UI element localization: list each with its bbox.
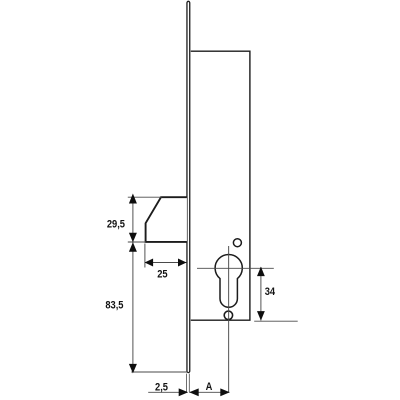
extension line below latch left edge (for 25) (144, 244, 146, 268)
lock body (case rectangle) (191, 51, 250, 320)
euro cylinder profile (215, 254, 242, 307)
dimension line 25 (145, 262, 187, 264)
arrow down (34 bottom) (257, 311, 265, 321)
svg-text:A: A (206, 382, 213, 394)
label 25 (157, 269, 168, 281)
arrow right (2,5 at faceplate left face) (179, 388, 189, 396)
svg-text:25: 25 (157, 269, 168, 281)
arrow up (34 top) (257, 267, 265, 277)
latch bolt (chamfered deadbolt, side view) (146, 197, 187, 242)
screw hole (lower) (224, 311, 232, 319)
extension line below faceplate left face (for 2,5) (186, 374, 188, 393)
extension line at faceplate bottom (131, 371, 187, 373)
arrow down (29,5 bottom) (129, 233, 137, 243)
arrow right (25) (178, 259, 187, 267)
svg-text:2,5: 2,5 (155, 382, 168, 394)
dimension line 2,5 (bottom left) (148, 391, 187, 393)
label 83,5 (105, 300, 123, 312)
dimension line 29,5 / 83,5 (vertical) (132, 195, 134, 372)
extension line at latch top (128, 196, 162, 198)
arrow right (A at cylinder axis) (220, 388, 230, 396)
extension line below faceplate right face (for A) (188, 374, 190, 393)
dimension line 34 (vertical) (260, 267, 262, 320)
arrow down (83,5 bottom) (129, 364, 137, 374)
arrow left (A at faceplate right face) (189, 388, 199, 396)
screw hole (upper) (233, 239, 241, 247)
label 34 (265, 286, 276, 298)
label A (206, 382, 213, 394)
label 29,5 (107, 219, 125, 231)
extension line at latch bottom (128, 241, 146, 243)
extension line at body bottom (for 34) (254, 320, 298, 322)
dimension line A (bottom) (189, 391, 229, 393)
centerline horizontal (cylinder axis) (197, 267, 274, 269)
arrow up (29,5 top) (129, 194, 137, 204)
centerline vertical (cylinder axis down to dimension A) (228, 246, 230, 392)
svg-text:83,5: 83,5 (105, 300, 123, 312)
label 2,5 (155, 382, 168, 394)
arrow up (83,5 top) (129, 242, 137, 252)
svg-text:29,5: 29,5 (107, 219, 125, 231)
arrow left (25) (145, 259, 154, 267)
faceplate (vertical front plate strip) (187, 1, 190, 372)
svg-text:34: 34 (265, 286, 276, 298)
